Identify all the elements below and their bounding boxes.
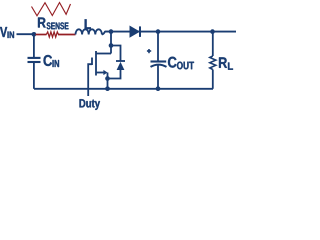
body diode cathode bar xyxy=(116,60,125,62)
transistor Q1 channel bar xyxy=(95,51,97,76)
node drain xyxy=(109,43,114,48)
transistor Q1 source stub with arrow xyxy=(96,72,104,74)
transistor Q1 gate connector xyxy=(88,64,92,96)
capacitor C_OUT lead top xyxy=(157,32,159,61)
capacitor C_OUT lead bottom xyxy=(157,65,159,89)
label R_SENSE xyxy=(38,18,46,28)
wire source down xyxy=(107,73,109,89)
inductor L xyxy=(76,29,102,34)
capacitor C_OUT top plate xyxy=(151,60,167,62)
body diode triangle xyxy=(117,62,125,70)
transistor Q1 drain stub xyxy=(96,53,111,55)
wire input xyxy=(17,33,34,35)
label R_L xyxy=(219,57,227,67)
label Duty (gate drive signal) xyxy=(80,99,101,110)
node switch xyxy=(109,29,114,34)
capacitor C_OUT bottom plate xyxy=(151,65,167,67)
label C_OUT xyxy=(168,57,177,68)
resistor R_L lead bottom xyxy=(212,70,214,89)
resistor R_L zigzag xyxy=(210,56,216,70)
node C_OUT rail xyxy=(156,86,161,91)
inductor current ripple waveform xyxy=(32,3,71,16)
capacitor C_IN lead bottom xyxy=(33,62,35,89)
node output xyxy=(156,29,161,34)
transistor Q1 gate bar xyxy=(91,58,93,66)
label V_IN xyxy=(0,27,7,37)
wire sense to inductor (red) xyxy=(58,34,76,36)
label L xyxy=(85,20,91,30)
node load xyxy=(210,29,215,34)
node source-rail xyxy=(105,86,110,91)
node input junction xyxy=(32,32,37,37)
wire inductor to switch node xyxy=(102,32,111,35)
resistor R_SENSE zigzag xyxy=(46,32,58,37)
wire drain to body diode xyxy=(111,46,121,62)
capacitor C_IN bottom plate xyxy=(28,61,41,63)
capacitor C_IN top plate xyxy=(28,57,41,59)
wire switch node to drain xyxy=(110,32,112,54)
capacitor C_IN lead top xyxy=(33,35,35,58)
node source-diode xyxy=(105,76,110,81)
diode (boost rectifier) xyxy=(130,26,139,37)
plus polarity mark xyxy=(147,50,151,52)
resistor R_L lead top xyxy=(212,32,214,56)
wire to sense resistor (red) xyxy=(36,34,47,36)
wire bottom rail xyxy=(34,88,213,90)
label C_IN xyxy=(44,55,53,66)
wire body diode to source xyxy=(108,70,121,79)
wire top rail xyxy=(105,31,236,33)
